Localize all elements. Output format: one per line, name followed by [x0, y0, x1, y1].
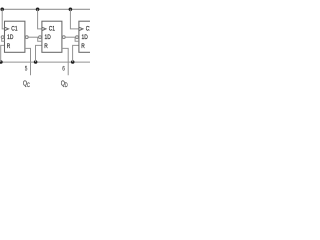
svg-text:C1: C1: [86, 26, 90, 33]
wire clock to U2: [38, 9, 42, 29]
flip-flop U2 box: [42, 21, 62, 52]
U2 clock triangle: [42, 27, 46, 30]
U2 input bubble: [39, 36, 42, 39]
junction reset tap U2: [34, 60, 38, 64]
svg-text:6: 6: [62, 66, 65, 73]
wire U1 Q to U2 D: [28, 36, 38, 38]
svg-text:R: R: [44, 43, 48, 50]
svg-text:R: R: [81, 43, 85, 50]
junction clock tap U3: [69, 8, 73, 12]
U1 clock triangle: [5, 27, 9, 30]
flip-flop U1 box: [5, 21, 25, 52]
svg-text:1D: 1D: [45, 34, 51, 41]
junction reset tap U3: [71, 60, 75, 64]
U3 D-tap wire: [75, 37, 79, 41]
wire reset to U1 R: [1, 45, 5, 62]
svg-text:5: 5: [25, 66, 28, 73]
svg-text:C1: C1: [11, 26, 17, 33]
U2 D-tap wire: [38, 37, 42, 41]
junction reset tap U1: [0, 60, 3, 64]
reset rail (bottom wire): [0, 61, 90, 63]
wire U1 output pin QC: [25, 48, 31, 75]
U1 input bubble: [1, 36, 4, 39]
U3 input bubble: [76, 36, 79, 39]
wire U2 output pin QD: [62, 48, 68, 75]
wire clock to U1: [2, 9, 4, 29]
svg-text:C: C: [27, 82, 30, 89]
svg-text:1D: 1D: [7, 34, 13, 41]
wire clock to U3: [70, 9, 79, 29]
clock rail (top wire): [1, 8, 90, 10]
U1 D-tap wire: [2, 38, 5, 41]
wire reset to U2 R: [36, 45, 42, 62]
svg-text:C1: C1: [49, 26, 55, 33]
junction clock tap U1: [0, 8, 4, 12]
U2 output bubble: [62, 36, 65, 39]
svg-text:D: D: [65, 82, 68, 89]
U3 clock triangle: [79, 27, 83, 30]
wire reset to U3 R: [73, 45, 79, 62]
flip-flop U3 box (clipped at right edge): [79, 21, 99, 52]
U1 output bubble: [25, 36, 28, 39]
junction clock tap U2: [36, 8, 40, 12]
svg-text:R: R: [7, 43, 11, 50]
svg-text:1D: 1D: [82, 34, 88, 41]
wire U2 Q to U3 D: [65, 36, 75, 38]
